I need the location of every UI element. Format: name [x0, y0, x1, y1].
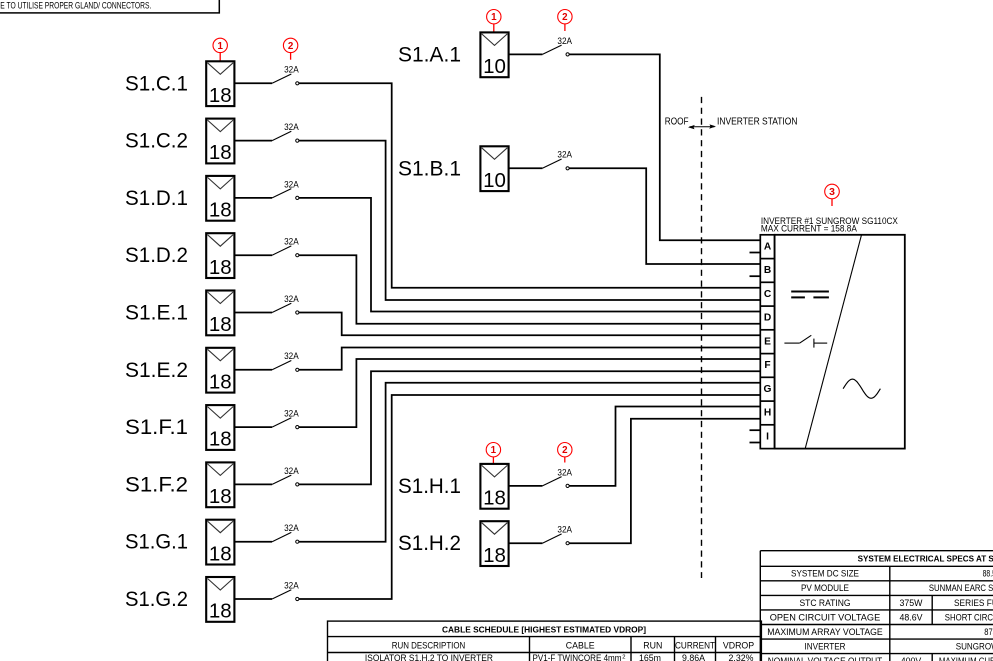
svg-text:RUN DESCRIPTION: RUN DESCRIPTION: [392, 640, 466, 650]
wire S1.E.2 isolator to inverter terminal: [299, 348, 760, 370]
svg-text:S1.F.1: S1.F.1: [125, 416, 188, 439]
wire S1.F.2 module to isolator: [234, 483, 272, 485]
svg-text:I: I: [766, 431, 769, 442]
svg-text:G: G: [764, 384, 772, 395]
wire S1.G.1 isolator to inverter terminal: [299, 383, 760, 542]
isolator switch S1.D.2 32A: [272, 237, 299, 257]
wire S1.E.1 isolator to inverter terminal: [299, 313, 760, 336]
svg-text:STC RATING: STC RATING: [800, 598, 851, 608]
svg-text:SERIES FUSE RATING: SERIES FUSE RATING: [954, 598, 993, 608]
svg-text:18: 18: [209, 84, 232, 107]
svg-text:PV MODULE: PV MODULE: [801, 583, 849, 593]
callout circle 3 (inverter): [825, 184, 840, 206]
svg-text:S1.H.2: S1.H.2: [398, 532, 461, 555]
PV string S1.D.1 module symbol (18 modules): [206, 176, 234, 222]
svg-text:S1.E.1: S1.E.1: [125, 302, 188, 325]
svg-text:S1.D.2: S1.D.2: [125, 244, 188, 267]
svg-text:MAXIMUM ARRAY VOLTAGE: MAXIMUM ARRAY VOLTAGE: [767, 627, 883, 637]
callout circle 2 (above S1.H.1 isolator): [558, 443, 572, 463]
callout circle 2 (above S1.A.1 isolator): [558, 10, 572, 32]
wire S1.G.2 isolator to inverter terminal: [299, 395, 760, 599]
svg-text:18: 18: [209, 428, 232, 451]
inverter DC/AC divider diagonal: [805, 235, 861, 449]
boundary dashed line ROOF / INVERTER STATION: [701, 97, 703, 578]
svg-text:10: 10: [483, 169, 506, 192]
svg-text:S1.C.1: S1.C.1: [125, 72, 188, 95]
PV string S1.G.1 module symbol (18 modules): [206, 520, 234, 566]
wire S1.E.2 module to isolator: [234, 369, 272, 371]
wire S1.D.1 isolator to inverter terminal: [299, 198, 760, 312]
svg-text:18: 18: [209, 313, 232, 336]
wire S1.C.1 isolator to inverter terminal: [299, 83, 760, 287]
PV string S1.G.2 module symbol (18 modules): [206, 577, 234, 623]
svg-text:32A: 32A: [284, 580, 299, 590]
svg-text:88.50kW: 88.50kW: [983, 569, 993, 579]
wire S1.F.1 isolator to inverter terminal: [299, 359, 760, 427]
svg-text:1: 1: [217, 41, 223, 52]
svg-text:9.86A: 9.86A: [682, 653, 705, 661]
wire S1.B.1 module to isolator: [509, 167, 543, 169]
wire S1.H.1 module to isolator: [509, 485, 543, 487]
svg-text:48.6V: 48.6V: [900, 612, 923, 622]
svg-text:18: 18: [209, 542, 232, 565]
svg-text:375W: 375W: [900, 598, 924, 608]
svg-text:CABLE SCHEDULE [HIGHEST ESTIMA: CABLE SCHEDULE [HIGHEST ESTIMATED VDROP]: [442, 624, 646, 634]
svg-text:INVERTER: INVERTER: [805, 641, 846, 651]
wire S1.B.1 isolator to inverter terminal: [569, 168, 760, 264]
PV string S1.E.2 module symbol (18 modules): [206, 348, 234, 394]
svg-text:F: F: [764, 360, 770, 371]
svg-text:32A: 32A: [284, 122, 299, 132]
wire S1.D.2 module to isolator: [234, 254, 272, 256]
svg-text:32A: 32A: [557, 467, 572, 477]
svg-text:ROOF: ROOF: [665, 116, 689, 127]
svg-text:1: 1: [491, 12, 497, 23]
svg-text:SHORT CIRCUIT CURRENT: SHORT CIRCUIT CURRENT: [945, 612, 993, 622]
isolator switch S1.F.1 32A: [272, 409, 299, 429]
svg-text:2: 2: [562, 445, 568, 456]
isolator switch S1.E.1 32A: [272, 294, 299, 314]
svg-text:32A: 32A: [284, 237, 299, 247]
unused terminal stub at B: [750, 275, 761, 277]
isolator switch S1.C.1 32A: [272, 65, 299, 85]
svg-text:C: C: [764, 289, 772, 300]
wire S1.F.1 module to isolator: [234, 426, 272, 428]
PV string S1.H.2 module symbol (18 modules): [480, 521, 508, 567]
svg-text:32A: 32A: [284, 523, 299, 533]
svg-text:32A: 32A: [557, 525, 572, 535]
svg-text:NOMINAL VOLTAGE OUTPUT: NOMINAL VOLTAGE OUTPUT: [768, 656, 883, 661]
isolator switch S1.E.2 32A: [272, 351, 299, 371]
svg-text:32A: 32A: [557, 150, 572, 160]
svg-text:10: 10: [483, 55, 506, 78]
callout circle 2 (left column, above S1.C.1 isolator): [283, 38, 297, 60]
svg-text:OPEN CIRCUIT VOLTAGE: OPEN CIRCUIT VOLTAGE: [770, 612, 881, 622]
svg-text:SUNGROW SG110CX: SUNGROW SG110CX: [956, 641, 993, 651]
wire S1.A.1 module to isolator: [509, 53, 543, 55]
inverter DC symbol: [791, 292, 829, 298]
PV string S1.C.2 module symbol (18 modules): [206, 119, 234, 165]
svg-text:D: D: [764, 313, 771, 324]
svg-text:PV1-F TWINCORE 4mm: PV1-F TWINCORE 4mm: [533, 653, 622, 661]
system electrical specs table: [760, 551, 993, 661]
wire S1.D.1 module to isolator: [234, 197, 272, 199]
svg-text:2: 2: [622, 655, 625, 661]
PV string S1.F.1 module symbol (18 modules): [206, 405, 234, 451]
wire S1.G.1 module to isolator: [234, 541, 272, 543]
isolator switch S1.G.2 32A: [272, 580, 299, 600]
PV string S1.B.1 module symbol (10 modules): [480, 146, 508, 192]
svg-text:18: 18: [209, 600, 232, 623]
wire S1.G.2 module to isolator: [234, 598, 272, 600]
unused terminal stub at I: [750, 442, 761, 444]
svg-text:2.32%: 2.32%: [729, 653, 754, 661]
svg-text:SYSTEM DC SIZE: SYSTEM DC SIZE: [791, 569, 859, 579]
svg-text:18: 18: [209, 370, 232, 393]
isolator switch S1.H.2 32A: [542, 525, 572, 545]
svg-text:E: E: [764, 336, 771, 347]
wire S1.F.2 isolator to inverter terminal: [299, 371, 760, 484]
svg-text:VDROP: VDROP: [723, 640, 754, 650]
svg-text:18: 18: [483, 544, 506, 567]
svg-text:874.8V: 874.8V: [984, 627, 993, 637]
svg-text:18: 18: [483, 487, 506, 510]
svg-text:S1.D.1: S1.D.1: [125, 187, 188, 210]
svg-text:S1.A.1: S1.A.1: [398, 43, 461, 66]
wire S1.C.2 isolator to inverter terminal: [299, 141, 760, 300]
svg-text:B: B: [764, 265, 771, 276]
callout circle 1 (left column, above S1.C.1): [213, 38, 227, 61]
svg-text:MAX CURRENT = 158.8A: MAX CURRENT = 158.8A: [761, 223, 858, 233]
isolator switch S1.C.2 32A: [272, 122, 299, 142]
svg-text:165m: 165m: [639, 653, 661, 661]
svg-text:32A: 32A: [284, 466, 299, 476]
boundary double arrow: [688, 124, 716, 129]
svg-text:S1.H.1: S1.H.1: [398, 475, 461, 498]
svg-text:S1.E.2: S1.E.2: [125, 359, 188, 382]
wire S1.H.1 isolator to inverter terminal: [569, 406, 760, 485]
isolator switch S1.G.1 32A: [272, 523, 299, 543]
svg-text:ISOLATOR S1.H.2 TO INVERTER: ISOLATOR S1.H.2 TO INVERTER: [365, 653, 493, 661]
PV string S1.D.2 module symbol (18 modules): [206, 233, 234, 279]
svg-text:18: 18: [209, 199, 232, 222]
svg-text:400V: 400V: [901, 656, 922, 661]
wire S1.H.2 module to isolator: [509, 542, 543, 544]
svg-text:SYSTEM ELECTRICAL SPECS AT STC: SYSTEM ELECTRICAL SPECS AT STC: [858, 554, 993, 564]
svg-text:32A: 32A: [284, 351, 299, 361]
unused terminal stub at I: [750, 429, 761, 431]
PV string S1.F.2 module symbol (18 modules): [206, 462, 234, 508]
isolator switch S1.B.1 32A: [542, 150, 572, 170]
svg-text:H: H: [764, 408, 771, 419]
note box: cable gland note: [0, 0, 219, 13]
svg-text:18: 18: [209, 256, 232, 279]
inverter AC sine symbol: [843, 379, 880, 398]
wire S1.C.2 module to isolator: [234, 140, 272, 142]
cable schedule table: [328, 621, 762, 661]
svg-text:S1.G.1: S1.G.1: [125, 531, 188, 554]
wire S1.C.1 module to isolator: [234, 82, 272, 84]
svg-text:1: 1: [491, 445, 497, 456]
svg-text:S1.B.1: S1.B.1: [398, 157, 461, 180]
svg-text:E TO UTILISE PROPER GLAND/ CON: E TO UTILISE PROPER GLAND/ CONNECTORS.: [0, 0, 151, 11]
svg-text:S1.G.2: S1.G.2: [125, 588, 188, 611]
svg-text:SUNMAN EARC SMF375F-12X12UW: SUNMAN EARC SMF375F-12X12UW: [929, 583, 993, 593]
svg-text:3: 3: [829, 187, 835, 198]
callout circle 1 (above S1.H.1): [486, 443, 500, 465]
PV string S1.E.1 module symbol (18 modules): [206, 291, 234, 337]
svg-text:32A: 32A: [557, 36, 572, 46]
svg-text:18: 18: [209, 141, 232, 164]
svg-text:A: A: [764, 241, 772, 252]
svg-text:32A: 32A: [284, 294, 299, 304]
svg-text:MAXIMUM CURRENT OUTPUT: MAXIMUM CURRENT OUTPUT: [939, 656, 993, 661]
svg-text:32A: 32A: [284, 179, 299, 189]
PV string S1.H.1 module symbol (18 modules): [480, 464, 508, 510]
isolator switch S1.A.1 32A: [542, 36, 572, 56]
wire S1.D.2 isolator to inverter terminal: [299, 255, 760, 324]
svg-text:2: 2: [562, 12, 568, 23]
callout circle 1 (above S1.A.1): [487, 10, 501, 33]
wire S1.E.1 module to isolator: [234, 312, 272, 314]
isolator switch S1.D.1 32A: [272, 179, 299, 199]
svg-text:S1.C.2: S1.C.2: [125, 130, 188, 153]
inverter terminal column A-I: [760, 235, 774, 449]
svg-text:CURRENT: CURRENT: [675, 640, 716, 650]
svg-text:S1.F.2: S1.F.2: [125, 473, 188, 496]
PV string S1.C.1 module symbol (18 modules): [206, 61, 234, 107]
isolator switch S1.H.1 32A: [542, 467, 572, 487]
wire S1.H.2 isolator to inverter terminal: [569, 419, 760, 543]
svg-text:INVERTER STATION: INVERTER STATION: [717, 116, 798, 127]
svg-text:18: 18: [209, 485, 232, 508]
svg-text:CABLE: CABLE: [566, 640, 595, 650]
svg-text:RUN: RUN: [643, 640, 662, 650]
PV string S1.A.1 module symbol (10 modules): [480, 32, 508, 78]
isolator switch S1.F.2 32A: [272, 466, 299, 486]
svg-text:32A: 32A: [284, 65, 299, 75]
svg-text:32A: 32A: [284, 409, 299, 419]
wire S1.A.1 isolator to inverter terminal: [569, 54, 760, 240]
inverter internal DC switch: [784, 335, 827, 347]
unused terminal stub at A: [750, 252, 761, 254]
svg-text:2: 2: [288, 41, 294, 52]
inverter U1 body: [775, 235, 905, 449]
